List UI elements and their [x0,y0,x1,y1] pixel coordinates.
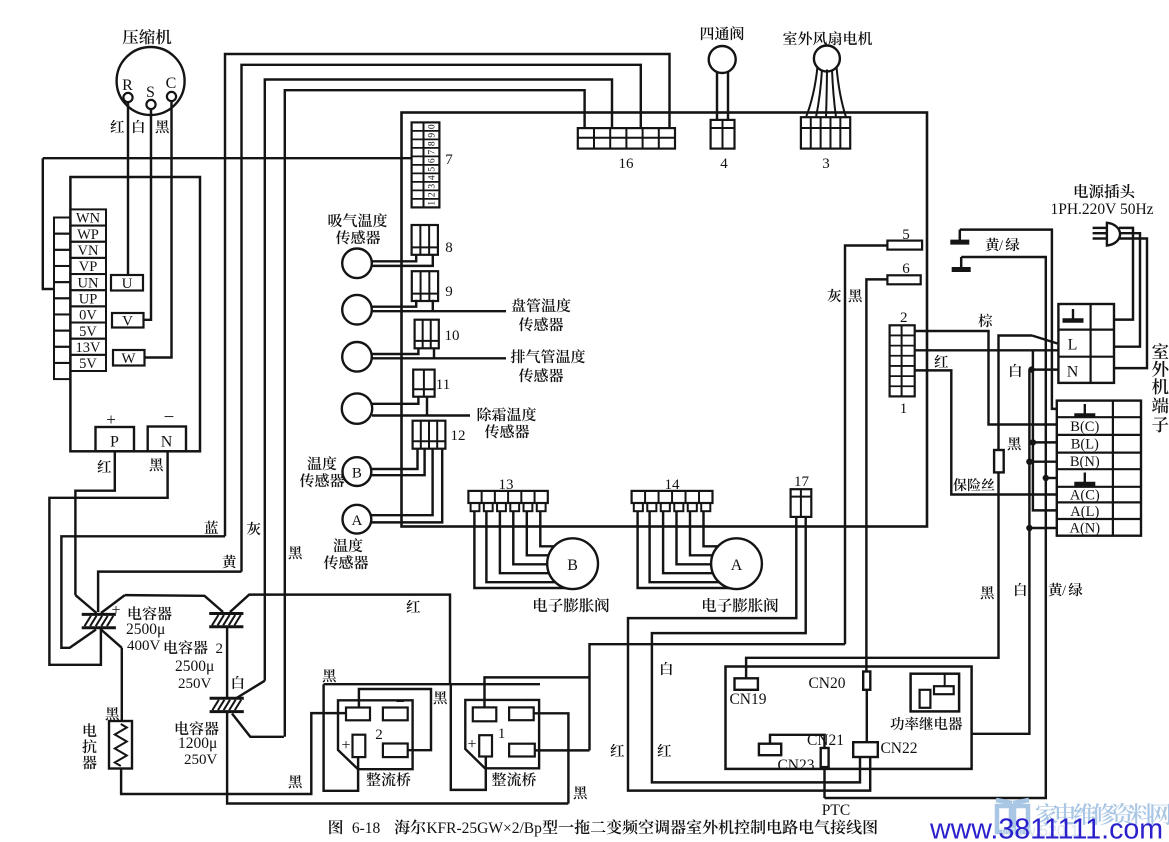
wire compressor C to W [145,101,172,358]
label 传感器 (coil) [519,317,563,331]
relay inner contact [920,690,931,708]
label 黄/绿 (top) [985,238,1019,254]
wire compressor S to V [144,109,152,320]
svg-text:1PH.220V 50Hz: 1PH.220V 50Hz [1050,201,1153,218]
svg-text:UP: UP [79,292,98,308]
connector 8 label [445,240,453,256]
wire reactor bottom bus [121,713,346,794]
wire cap3 bottom bus [227,712,568,804]
coil temp sensor circle [342,295,372,325]
svg-text:A: A [731,557,743,574]
wire color label 黑 (N lead) [150,458,163,471]
label 黑 (fuse upper) [1008,437,1021,450]
compressor pin R [123,93,132,102]
label 250V (C3) [184,752,218,768]
CN22 label [880,740,917,757]
bridge2 pin TR [383,708,408,721]
connector CN16 (6-pos) [578,128,675,149]
connector 14 label [665,477,681,493]
coil sensor wires to CN9 [372,300,506,311]
label 1200μ (C3) [178,735,217,752]
svg-text:KFR-25GW×2/Bp: KFR-25GW×2/Bp [426,820,542,837]
label 黑 (bridge2 loop) [434,691,447,704]
svg-text:3: 3 [822,156,830,172]
minus sign above N [164,407,175,428]
svg-text:3: 3 [428,184,438,189]
wire branch to B(N) [1029,460,1056,462]
bridge1 pin TL [473,707,497,721]
capacitor C2 body [209,614,243,627]
fuse F1 [994,450,1004,472]
capacitor C1 leg lower-right [101,630,122,648]
label 四通阀 [701,26,744,40]
loop wire 4 黑 (conn16 pin to x285) [285,90,585,737]
label 红 (cap bus) [407,600,421,613]
svg-text:17: 17 [794,474,810,490]
svg-text:−: − [164,407,175,428]
relay inner coil [934,674,954,695]
label 传感器 (discharge) [519,368,563,382]
wire loop3 diag to cap3 [235,681,265,699]
svg-text:1: 1 [428,201,438,206]
label 传感器 (suction) [336,230,380,244]
defrost sensor wires to CN11 [372,397,470,416]
loop wire 3 灰 (conn16 pin to x265) [265,80,612,681]
connector CN19 [735,678,758,690]
plus sign above P [106,410,116,429]
label 黑 (loop4) [289,546,302,559]
connector 9 label [445,284,453,300]
svg-text:/: / [999,238,1004,254]
fan motor leads (5) [806,67,846,118]
four-way valve leads [717,72,728,120]
label 除霜温度 [478,407,536,421]
label 温度 (sensor A) [333,538,362,552]
label 保险丝 [953,478,994,491]
svg-text:+: + [111,602,120,619]
label 室外机端子 vertical [1152,343,1169,432]
svg-text:V: V [122,314,133,330]
sensor B wires to CN12 [371,449,424,476]
ground symbol G2 [952,257,971,270]
plus sign capacitor C1 [111,602,120,619]
label 红 (web left) [611,744,625,757]
terminal L text [1068,337,1078,354]
svg-text:4: 4 [720,156,728,172]
power plug prongs [1093,228,1108,239]
terminal block L/N [1058,304,1114,383]
wire color label 黑 (C lead) [156,120,169,133]
svg-text:9: 9 [428,133,438,138]
wire compressor R to U [127,102,129,275]
wire color label 红 (R lead) [111,120,125,133]
wire N to capacitor1 minus [49,451,167,665]
label 白 (web) [661,662,672,675]
svg-text:C: C [166,75,177,92]
connector CN2/CN1 strip [890,325,915,396]
connector CN7 (10-pin) [412,122,440,207]
label 灰 (conn5 wire) [828,289,842,302]
svg-text:13V: 13V [76,340,102,356]
sub-board box (CN19-23) [726,667,972,769]
connector 11 label [436,377,450,393]
svg-text:2500μ: 2500μ [175,658,214,675]
label 电子膨胀阀 (B) [534,598,609,613]
plug wire to L row [1114,233,1140,347]
bridges top bus [324,683,540,685]
loop wire 2 黄 (conn16 pin to x241) [242,65,641,572]
label 棕 [978,314,992,328]
svg-text:0V: 0V [79,308,97,324]
compressor M1 body circle [117,47,185,115]
discharge temp sensor circle [342,342,372,372]
CN20 label [808,675,845,692]
svg-text:2500μ: 2500μ [126,621,165,638]
temp sensor A circle [343,505,372,534]
svg-text:2: 2 [375,727,383,743]
label 灰 (loop3) [247,522,261,535]
wire 白 to N [1032,368,1059,370]
svg-text:A: A [351,513,362,529]
sensor A wires to CN12 [371,449,442,523]
terminal N box [148,427,186,452]
connector 6 label [902,261,910,277]
label 电容器 (C3) [176,721,219,735]
terminal V box [112,313,144,330]
svg-text:−: − [395,694,404,711]
connector 12 label [451,428,466,444]
label 黄 (upper) [222,555,236,568]
label 整流桥 (2) [366,772,410,786]
bridge1 pin TR [509,707,534,720]
watermark text 家电维修资料网 [1036,803,1169,825]
label 白 (N wire) [1010,364,1021,377]
inverter power module box [70,177,200,451]
four-way valve coil circle [709,46,736,73]
loop wire 1 (conn16 pin to x225) [225,54,670,536]
label 1PH.220V 50Hz [1050,201,1153,218]
svg-text:5: 5 [428,167,438,172]
label 传感器 (sensor A) [324,555,368,569]
bridge1 TR wire [534,713,569,803]
label 室外风扇电机 [783,31,872,45]
power relay box [911,674,960,712]
label 电源插头 [1075,184,1135,198]
svg-text:S: S [146,84,155,101]
diagonal into L [1032,336,1058,344]
junction dot lower earth [1043,475,1049,481]
wire 17pinL to CN22 right pin [628,517,870,791]
wire module feed horizontal [43,157,412,159]
label 黑 (conn6 wire) [849,289,862,302]
wire 棕 conn2 to B(C) [915,331,1057,425]
svg-text:2: 2 [900,310,908,326]
svg-text:U: U [122,276,133,292]
svg-text:11: 11 [436,377,450,393]
svg-text:B: B [567,557,578,574]
svg-text:VN: VN [78,243,99,259]
connector CN5 [887,241,922,250]
terminal B(C) text [1070,419,1099,435]
junction dot A(N) [1026,525,1032,531]
connector 17 label [794,474,810,490]
wire 黄 loop2 to cap1 top [98,572,241,612]
module left pin boxes [54,218,70,380]
suction temp sensor circle [342,248,372,278]
svg-text:400V: 400V [127,638,161,654]
svg-text:N: N [1067,364,1079,381]
wire color label 红 (P lead) [98,460,112,473]
svg-text:8: 8 [428,141,438,146]
minus sign bridge1 [522,693,531,710]
connector 1 label [900,401,908,417]
label 电容器 2 (C2) [165,640,223,657]
connector CN4 [711,120,735,149]
connector CN17 [791,489,812,517]
label 传感器 (defrost) [485,424,529,438]
connector CN14 [632,491,713,511]
label 传感器 (sensor B) [300,473,344,487]
wire branch to A(N) [1029,527,1056,529]
terminal B(L) text [1071,437,1099,453]
junction dot 白 [1028,366,1034,372]
svg-text:10: 10 [445,328,460,344]
outdoor fan motor circle [814,46,840,72]
wire branch white vertical A [1032,350,1034,369]
bridge1 label 1 [498,726,506,742]
bridge2 minus loop [359,689,431,750]
wire G1 to outdoor terminal earth [960,230,1057,409]
label 250V (C2) [178,676,212,692]
svg-text:1: 1 [498,726,506,742]
junction dot B(L) [1030,439,1036,445]
wire white vertical2 to CN box [972,370,1030,734]
svg-text:9: 9 [445,284,453,300]
label 红 (conn2 wire) [935,355,949,368]
terminal block B/A [1057,401,1141,536]
plus sign bridge1 [467,736,476,753]
suction sensor wires to CN8 [372,255,433,266]
label 2500μ (C1) [126,621,165,638]
CN19 label [729,691,766,708]
terminal P box [96,427,135,451]
label 电抗器 vertical [82,723,96,769]
wire CN23 to CN21 [770,735,825,748]
valve B wires [474,511,565,588]
label 黑 (reactor) [106,707,119,720]
valve A wires [638,511,730,588]
terminal U box [111,275,143,292]
connector 13 label [499,477,514,493]
svg-text:12: 12 [451,428,466,444]
wire cap1 to reactor [121,648,123,721]
svg-text:L: L [1068,337,1078,354]
wire 17pinR to CN22 left pin [652,517,860,783]
svg-text:CN20: CN20 [808,675,845,692]
plug wire to N row [1114,239,1147,369]
wire cap2 to cap3 vertical [226,626,228,698]
svg-text:WN: WN [76,211,101,227]
svg-text:1: 1 [900,401,908,417]
wire CN20 to CN22 [866,690,868,742]
watermark url www.3811111.com [929,814,1163,842]
earth symbol row5 [1074,473,1095,485]
svg-text:CN22: CN22 [880,740,917,757]
main control board outline [402,113,928,527]
earth symbol row1 [1074,404,1095,416]
label 黄/绿 (bottom) [1048,583,1082,599]
label 电子膨胀阀 (A) [703,598,778,613]
junction dot B(N) [1026,459,1032,465]
wire fuse upper to L diag [999,336,1033,451]
svg-text:B(C): B(C) [1070,419,1099,435]
label 蓝 [204,521,218,534]
svg-text:4: 4 [428,175,438,180]
compressor pin C [167,92,176,101]
svg-text:PTC: PTC [822,802,850,819]
minus sign bridge2 [395,694,404,711]
svg-text:N: N [161,434,173,451]
svg-text:W: W [121,351,136,367]
plus sign bridge2 [341,737,350,754]
temp sensor B circle [343,457,372,486]
svg-text:7: 7 [445,152,453,168]
terminal W box [113,350,145,367]
label 2500μ (C2) [175,658,214,675]
label 黑 (reactor bus) [289,775,302,788]
terminal A(C) text [1070,488,1100,504]
connector CN22 [853,742,878,757]
svg-text:CN19: CN19 [729,691,766,708]
defrost temp sensor circle [342,393,372,423]
bridge2 pin TL [346,708,370,721]
svg-text:A(C): A(C) [1070,488,1100,504]
svg-text:250V: 250V [178,676,212,692]
svg-text:P: P [110,434,119,451]
connector CN9 [412,271,438,301]
label 盘管温度 [512,298,571,312]
wire 红 conn2 to A(C) [915,370,1057,494]
svg-text:6: 6 [428,158,438,163]
connector CN23 [759,744,781,756]
svg-text:WP: WP [77,227,99,243]
bridge2 label 2 [375,727,383,743]
rectifier bridge D1 outline [465,700,539,768]
wire branch to B(L) [1033,441,1057,443]
earth symbol in LN block [1063,309,1084,321]
bridge1 pin BR [509,744,535,757]
CN23 label [777,757,814,774]
label 白 (bottom) [1015,583,1026,596]
connector 2 label [900,310,908,326]
connector 3 label [822,156,830,172]
svg-text:R: R [122,77,133,94]
svg-text:/: / [1062,583,1067,599]
wire module feed drop to pin box [43,158,54,289]
connector 4 label [720,156,728,172]
connector CN20 [863,672,870,690]
plug wire to earth row [1114,228,1133,320]
svg-text:5V: 5V [79,324,97,340]
watermark book icon [996,800,1029,832]
terminal A(L) text [1070,504,1099,520]
wire branch to lower earth row [1046,477,1057,479]
label 温度 (sensor B) [307,456,336,470]
terminal A(N) text [1069,521,1100,537]
connector 10 label [445,328,460,344]
wire2 conn2 to L [915,349,1058,351]
reactor L1 box [109,721,132,769]
wire cap2 right to 红 wire [230,595,450,685]
svg-text:+: + [341,737,350,754]
svg-text:+: + [467,736,476,753]
svg-text:−: − [522,693,531,710]
svg-text:B: B [352,466,362,482]
label 黑 (bridge1 right) [574,786,587,799]
connector CN12 [413,421,446,449]
bridge1 pin plus [479,735,492,756]
wire 蓝 loop1 to cap1 [61,536,225,648]
wire cap1-cap2 link [125,595,223,612]
CN21 label [807,732,844,749]
svg-text:6-18: 6-18 [352,820,381,837]
label 吸气温度 [329,213,388,227]
terminal N text [1067,364,1079,381]
svg-text:B(L): B(L) [1071,437,1099,453]
wire fuse lower to CN19 [746,472,998,678]
svg-text:2: 2 [216,641,224,657]
connector CN8 [412,225,438,255]
svg-text:7: 7 [428,150,438,155]
bridge2 outer loop [324,684,359,791]
wire color label 白 (S lead) [133,120,144,133]
svg-text:UN: UN [78,275,99,291]
discharge sensor wires to CN10 [372,348,506,358]
bridge1 BR wire [535,749,590,751]
expansion valve B circle [547,538,598,589]
capacitor C1 body [82,614,116,627]
bridge1 outer loop [451,685,486,790]
wire white vertical to A(L) [1033,370,1057,511]
compressor terminal letter C [166,75,177,92]
figure caption [329,819,877,837]
connector 5 label [902,227,910,243]
svg-text:VP: VP [79,259,98,275]
connector CN10 [415,320,439,349]
connector CN11 [413,370,434,397]
label 400V (C1) [127,638,161,654]
power plug body [1107,223,1120,246]
label 红 (web right) [658,744,672,757]
bridge1 TL wire [485,677,590,707]
terminal B(N) text [1070,454,1100,470]
rectifier bridge D2 outline [338,700,413,769]
svg-text:1200μ: 1200μ [178,735,217,752]
svg-text:0: 0 [428,124,438,129]
connector CN13 [468,491,547,511]
watermark faint url [1000,823,1079,840]
svg-text:A(L): A(L) [1070,504,1099,520]
compressor pin S [146,100,155,109]
svg-text:8: 8 [445,240,453,256]
wire CN21 to PTC line [823,767,825,798]
compressor terminal letter S [146,84,155,101]
module terminal strip WN..5V [70,209,106,372]
wire conn6 to CN20 黑 [866,279,887,671]
connector CN3 (5-pin) [801,117,850,148]
svg-text:16: 16 [619,156,635,172]
label 电容器 (C1) [129,606,172,620]
